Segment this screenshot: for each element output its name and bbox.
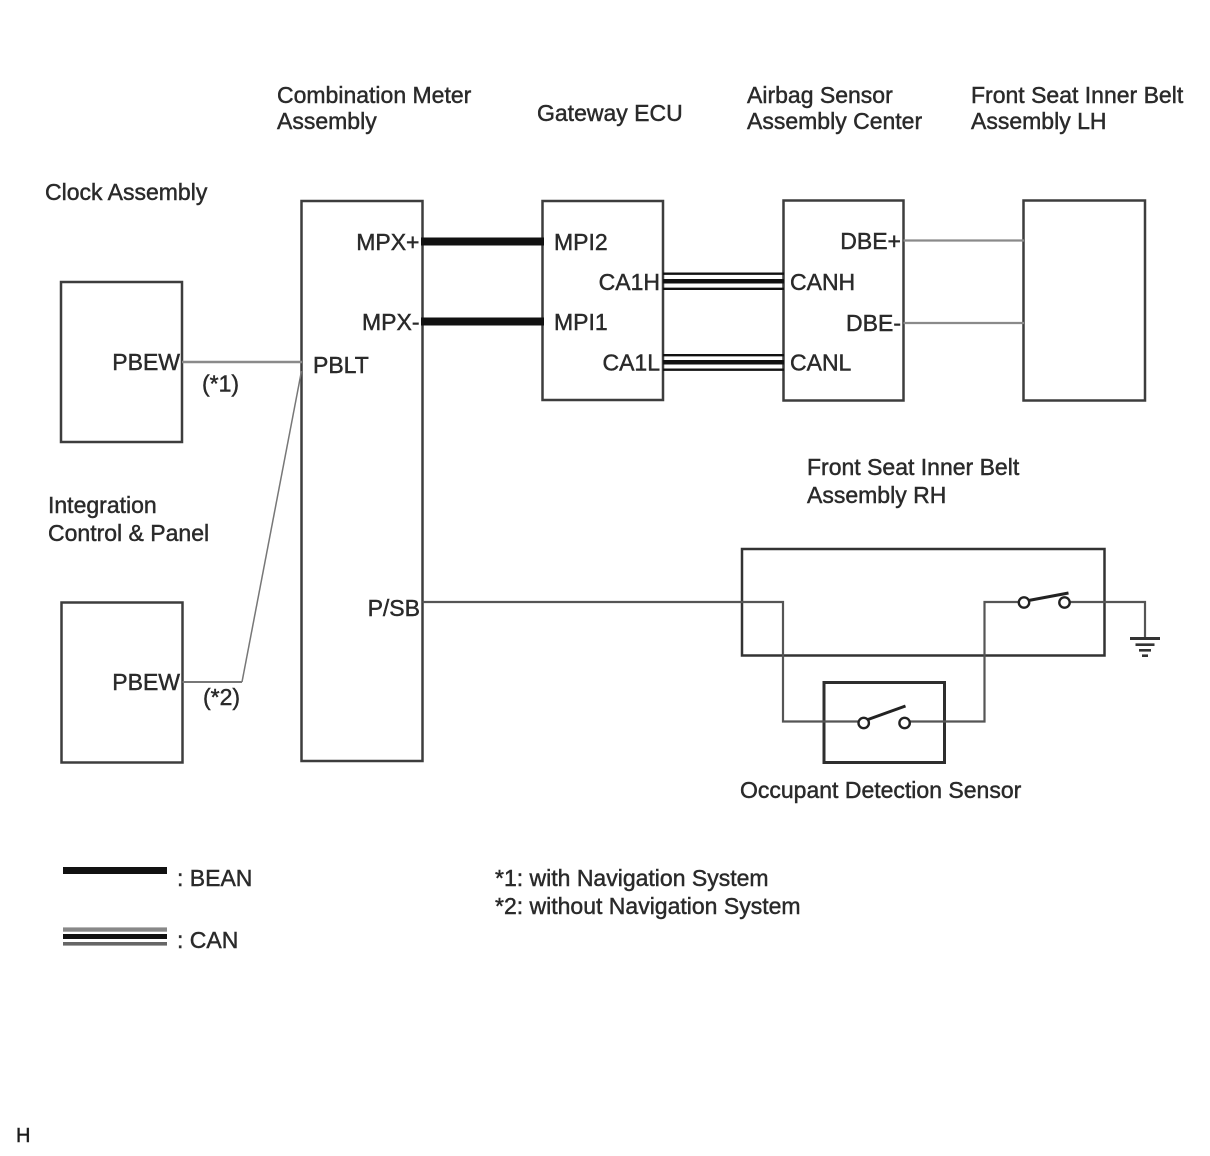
legend label : BEAN (177, 865, 252, 891)
label: Front Seat Inner Belt Assembly RH header (807, 454, 1020, 508)
svg-text:: CAN: : CAN (177, 927, 238, 953)
wire: P/SB from meter into RH belt assembly down to occupant sensor (423, 602, 859, 722)
pin label CA1L (602, 350, 660, 376)
block: Occupant Detection Sensor (824, 683, 945, 763)
block: Front Seat Inner Belt Assembly LH (1024, 201, 1146, 401)
wire: PBEW (clock) to PBLT, with Navigation System (182, 361, 302, 363)
wire: BEAN bus MPX- to MPI1 (421, 318, 544, 326)
svg-text:MPI2: MPI2 (554, 229, 608, 255)
legend: BEAN line sample (63, 867, 167, 874)
svg-text:PBLT: PBLT (313, 352, 369, 378)
svg-text:CA1H: CA1H (599, 269, 660, 295)
wire: BEAN bus MPX+ to MPI2 (421, 238, 544, 246)
svg-text:Front Seat Inner Belt: Front Seat Inner Belt (807, 454, 1020, 480)
svg-text:CA1L: CA1L (602, 350, 660, 376)
pin label MPX- (362, 309, 420, 335)
legend label : CAN (177, 927, 238, 953)
svg-text:Gateway ECU: Gateway ECU (537, 100, 683, 126)
svg-text:PBEW: PBEW (112, 349, 180, 375)
switch: occupant detection sensor contact (859, 706, 910, 728)
svg-text:Assembly Center: Assembly Center (747, 108, 922, 134)
svg-text:Assembly LH: Assembly LH (971, 108, 1106, 134)
svg-text:PBEW: PBEW (112, 669, 180, 695)
svg-text:Occupant Detection Sensor: Occupant Detection Sensor (740, 777, 1022, 803)
note label (*2) (203, 684, 240, 710)
wire: diagonal segment PBEW (integration) to PBLT (242, 371, 302, 682)
pin label MPI2 (554, 229, 608, 255)
label: Combination Meter Assembly header (277, 82, 472, 134)
wire: RH buckle switch to ground (1070, 602, 1146, 637)
block: Combination Meter Assembly (302, 201, 423, 761)
svg-text:P/SB: P/SB (368, 595, 420, 621)
svg-text:Integration: Integration (48, 492, 157, 518)
pin label PBEW (Integration Control & Panel) (112, 669, 180, 695)
svg-text:MPI1: MPI1 (554, 309, 608, 335)
svg-text:MPX-: MPX- (362, 309, 420, 335)
svg-text:Assembly: Assembly (277, 108, 377, 134)
svg-text:(*1): (*1) (202, 371, 239, 397)
block: Integration Control & Panel (connector PBEW) (62, 603, 183, 763)
block: Gateway ECU (543, 201, 664, 400)
label: Front Seat Inner Belt Assembly LH header (971, 82, 1184, 134)
switch: seat belt buckle switch RH (1019, 593, 1070, 608)
svg-text:MPX+: MPX+ (356, 229, 419, 255)
svg-text:*1: with Navigation System: *1: with Navigation System (495, 865, 769, 891)
wire: DBE+ to belt LH (904, 239, 1025, 241)
svg-text:Airbag Sensor: Airbag Sensor (747, 82, 893, 108)
svg-text:Assembly RH: Assembly RH (807, 482, 946, 508)
note: *1 with Navigation System (495, 865, 769, 891)
svg-text:DBE-: DBE- (846, 310, 901, 336)
page marker H (16, 1125, 30, 1147)
pin label P/SB (368, 595, 420, 621)
svg-text:DBE+: DBE+ (840, 228, 901, 254)
pin label PBLT (313, 352, 369, 378)
pin label MPI1 (554, 309, 608, 335)
svg-text:CANH: CANH (790, 269, 855, 295)
label: Gateway ECU header (537, 100, 683, 126)
block: Clock Assembly (connector PBEW) (61, 282, 182, 442)
label: Integration Control & Panel header (48, 492, 209, 546)
svg-text:CANL: CANL (790, 350, 852, 376)
label: Airbag Sensor Assembly Center header (747, 82, 922, 134)
label: Clock Assembly header (45, 179, 208, 205)
pin label CA1H (599, 269, 660, 295)
legend: CAN line sample (63, 927, 167, 945)
svg-text:Combination Meter: Combination Meter (277, 82, 472, 108)
wire: DBE- to belt LH (904, 322, 1025, 324)
svg-text:Control & Panel: Control & Panel (48, 520, 209, 546)
ground (1130, 639, 1160, 656)
svg-text:Clock Assembly: Clock Assembly (45, 179, 208, 205)
svg-text:*2: without Navigation System: *2: without Navigation System (495, 893, 801, 919)
pin label CANH (790, 269, 855, 295)
pin label PBEW (Clock Assembly) (112, 349, 180, 375)
svg-text:: BEAN: : BEAN (177, 865, 252, 891)
block: Airbag Sensor Assembly Center (784, 201, 904, 401)
pin label CANL (790, 350, 852, 376)
svg-text:H: H (16, 1125, 30, 1147)
pin label DBE- (846, 310, 901, 336)
wire: CAN bus CA1H to CANH (663, 274, 784, 289)
block: Front Seat Inner Belt Assembly RH (742, 549, 1105, 656)
wire: CAN bus CA1L to CANL (663, 355, 784, 370)
note label (*1) (202, 371, 239, 397)
note: *2 without Navigation System (495, 893, 801, 919)
wire: PBEW (integration) horizontal segment, without Navigation System (183, 681, 243, 683)
label: Occupant Detection Sensor header (740, 777, 1022, 803)
svg-text:(*2): (*2) (203, 684, 240, 710)
pin label DBE+ (840, 228, 901, 254)
wire: occupant sensor to RH buckle switch (910, 602, 1019, 722)
pin label MPX+ (356, 229, 419, 255)
svg-text:Front Seat Inner Belt: Front Seat Inner Belt (971, 82, 1184, 108)
